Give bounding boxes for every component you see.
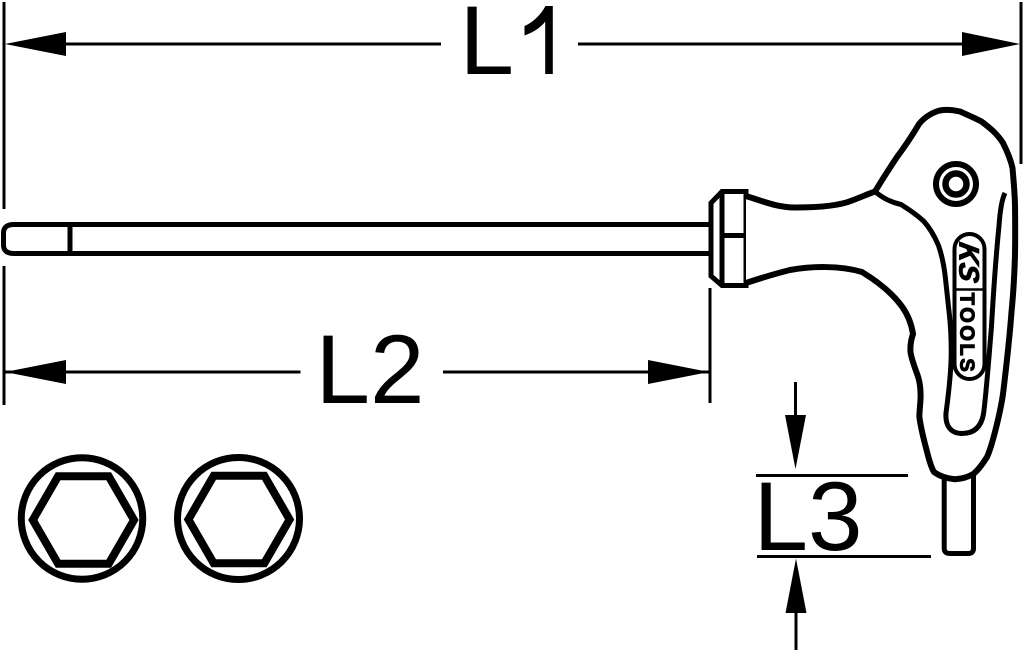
right extension line L2 [709,288,712,403]
hex section circle 1 [21,458,143,580]
arrowhead L2 right [648,360,709,384]
arrowhead L2 left [5,360,66,384]
shaft (long arm) [4,225,713,254]
L3 upper boundary line [756,474,908,477]
hex section polygon 2 [188,476,289,564]
L3 lower boundary line [757,555,931,558]
hex section polygon 1 [33,476,134,564]
L3 upper arrow line [794,382,797,425]
handle outer outline [746,110,1015,479]
dimension line L1 [64,43,964,46]
collar facet line vertical [720,192,725,286]
shaft hex tip divider [68,225,73,254]
svg-text:TOOLS: TOOLS [956,293,978,375]
arrowhead L1 left [5,32,66,56]
svg-text:L3: L3 [754,461,863,571]
collar (ferrule) [711,192,746,286]
inner contour (grip core seam) [875,192,1005,434]
L3 lower arrowhead [786,559,807,614]
digit 1 of L1 (custom arial-like) [525,6,553,74]
L3 upper arrowhead [785,415,806,469]
logo oval [955,234,985,379]
svg-text:KS: KS [954,240,985,285]
svg-text:L2: L2 [316,314,425,424]
handle hole outer ring [936,164,976,204]
right extension line L1 [1020,2,1023,164]
handle hole inner ring [946,174,967,195]
logo divider [956,288,983,291]
arrowhead L1 right [962,32,1020,56]
short arm stub [944,470,973,554]
hex section circle 2 [178,458,300,580]
dimension line L2 [5,371,709,374]
left extension line [3,2,6,405]
collar facet line horizontal [722,233,746,238]
svg-text:L: L [460,0,515,95]
L3 lower arrow line [795,613,798,650]
